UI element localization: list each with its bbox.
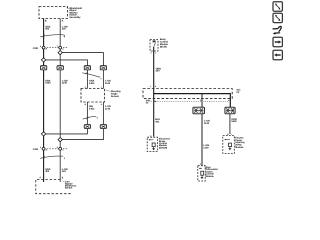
svg-text:240: 240 [156,70,161,73]
label switch S1 [62,180,76,189]
bus tap wire at x202 [201,94,203,108]
wire WR3 (to EPS module) [229,114,231,134]
svg-text:1140: 1140 [105,107,111,110]
wire W4 (SP4 down to M2) [102,70,104,89]
wire label W1 lower [45,168,51,173]
svg-text:C201: C201 [33,47,39,50]
toolbar icon prev (left arrow) [273,50,282,59]
connector C201 link line (upper) [41,47,67,49]
module M2 (steering angle sensor, dashed box) [81,89,105,103]
connector terminal circle on W2 lower [59,147,62,150]
ground arrow G1 [153,147,155,149]
harness pointer curve 3 [40,156,63,158]
element G2 [201,171,204,175]
dotted connector pass line [146,100,229,102]
pin letters at C201 upper [40,45,64,50]
splice pack SP205 [193,107,205,114]
wire W2 (second vertical) [59,19,61,183]
element G1 [152,143,155,147]
wire label WR2 [204,120,210,125]
label module M2 [106,90,121,98]
wire label below SP1 [45,79,51,84]
svg-text:1140: 1140 [62,82,68,85]
continuation arrow G3 [224,139,226,141]
harness pointer curve 2 (on W3b) [83,117,97,120]
switch S1 (dashed box bottom-left) [36,179,72,193]
wire W3 (SP3 down to M2) [86,70,88,89]
connector boundary X50A (wide dashed rect) [143,89,232,99]
module G1 (EBCM, dashed box) [147,135,157,152]
harness pointer curve below SP3 [82,72,100,77]
arrowhead jump icon [273,32,276,34]
svg-text:1140: 1140 [203,147,209,150]
wire label WR1 lower [155,118,160,123]
connector terminal circle on W2 [59,46,62,49]
svg-text:1: 1 [231,133,232,136]
wire label WR2 lower [203,144,209,149]
label module G1 [158,138,171,150]
connector terminal circle on W1 lower [42,147,45,150]
continuation arrow G1 [148,139,150,141]
wire label GRA 403 [45,26,51,31]
svg-text:Module: Module [235,146,244,149]
svg-text:2: 2 [155,52,156,55]
svg-text:1840: 1840 [231,120,237,123]
svg-text:M6: M6 [146,101,149,104]
continuation arrow G2 [199,168,201,170]
wire label W3 [89,80,95,85]
wire label below SP2 [62,79,68,84]
svg-text:1403: 1403 [45,82,51,85]
pin letters under M2 [85,103,103,106]
in-line connector F1 [84,125,90,129]
label at right of X50A [236,89,241,94]
arrowhead pointer curve below SP3 [100,78,101,79]
svg-text:2: 2 [85,86,86,89]
svg-text:140: 140 [62,28,67,31]
module G2 (rear differential, dashed box) [198,163,205,181]
label module G2 [204,166,218,178]
module G3 (EPS, dashed box) [223,133,235,154]
svg-text:403: 403 [45,170,50,173]
net wire from D2 to SP4 [62,53,103,66]
splice pack SP2 [57,66,63,70]
svg-text:403: 403 [45,28,50,31]
label fuse FB [160,38,169,49]
svg-text:8: 8 [228,99,229,102]
svg-text:Switch: Switch [65,187,73,190]
wire label L-GN 140 [62,26,68,31]
label left of pass line [146,99,151,104]
connector terminal circle on W1 [42,46,45,49]
wire label W4b [105,105,111,110]
wire W3b (M2 down to F1) [86,102,88,125]
wire label WR3 [231,118,237,123]
svg-text:8: 8 [40,45,41,48]
junction diamond D3 on W1 [41,132,45,136]
wire label W4 [105,80,111,85]
svg-text:9: 9 [200,99,201,102]
wire label WR1 [156,67,162,72]
svg-text:Sensor: Sensor [111,95,119,98]
toolbar icon jump (squiggle arrow) [273,26,282,33]
wire W1 (left vertical) [43,19,45,183]
svg-text:(EBCM): (EBCM) [159,146,168,149]
fuse FB (dashed box top-right) [150,40,158,52]
connector C201 link line (lower) [41,148,67,150]
svg-text:Module: Module [206,175,215,178]
toolbar icon zoom-out (diag arrows) [273,2,282,11]
svg-text:1140: 1140 [105,82,111,85]
arrowhead curve 2 [96,117,97,118]
net wire from D1 to SP3 [46,60,88,66]
svg-text:1403: 1403 [89,82,95,85]
label module M1 [66,7,82,19]
in-line connector F2 [100,125,106,129]
svg-text:Assembly: Assembly [69,16,81,19]
svg-text:(BCM): (BCM) [160,45,167,48]
ground arrow G3 [229,147,231,149]
arrowhead curve 1 [64,36,65,37]
element G3 [229,143,232,147]
net wire F2 to diamond D4 [62,129,103,140]
pin letters at C201 lower [40,146,64,151]
wire WR1 (fuse down to bus and ground) [153,47,155,137]
ground arrow G2 [201,175,203,177]
svg-text:1403: 1403 [89,107,95,110]
toolbar icon zoom-in (diag arrows) [273,13,282,22]
splice pack SP3 [84,66,90,70]
svg-text:5: 5 [57,146,58,149]
wire WR2 (to rear module) [201,114,203,166]
net wire F1 to diamond D3 [46,129,88,134]
svg-text:6: 6 [40,146,41,149]
harness pointer curve 1 [40,35,64,37]
svg-text:C201: C201 [33,148,39,151]
junction diamond D4 on W2 [58,138,62,142]
module M1 (switch assembly, dashed box top-left) [39,7,68,19]
splice pack SP1 [40,66,46,70]
svg-text:1: 1 [101,86,102,89]
toolbar icon next (right arrow) [273,37,282,46]
wire W4b (M2 down to F2) [102,102,104,125]
splice pack SP4 [100,66,106,70]
pin letters under fuse FB [151,52,157,55]
arrow marker on pass line [155,101,157,103]
junction diamond D2 on W2 [58,51,62,55]
svg-text:1140: 1140 [204,122,210,125]
svg-text:140: 140 [62,170,67,173]
label module G3 [235,137,246,149]
wire label W3b [89,105,95,110]
arrowhead curve 3 [64,158,65,159]
wire label W2 lower [62,168,68,173]
bus wire (splice rail) [154,94,231,108]
junction diamond D1 on W1 [41,58,45,62]
svg-text:451: 451 [155,120,160,123]
svg-text:4: 4 [150,85,151,88]
pin label at bus entry [150,85,157,88]
fuse element [153,40,156,42]
svg-text:7: 7 [57,45,58,48]
splice pack SP206 [225,107,235,114]
